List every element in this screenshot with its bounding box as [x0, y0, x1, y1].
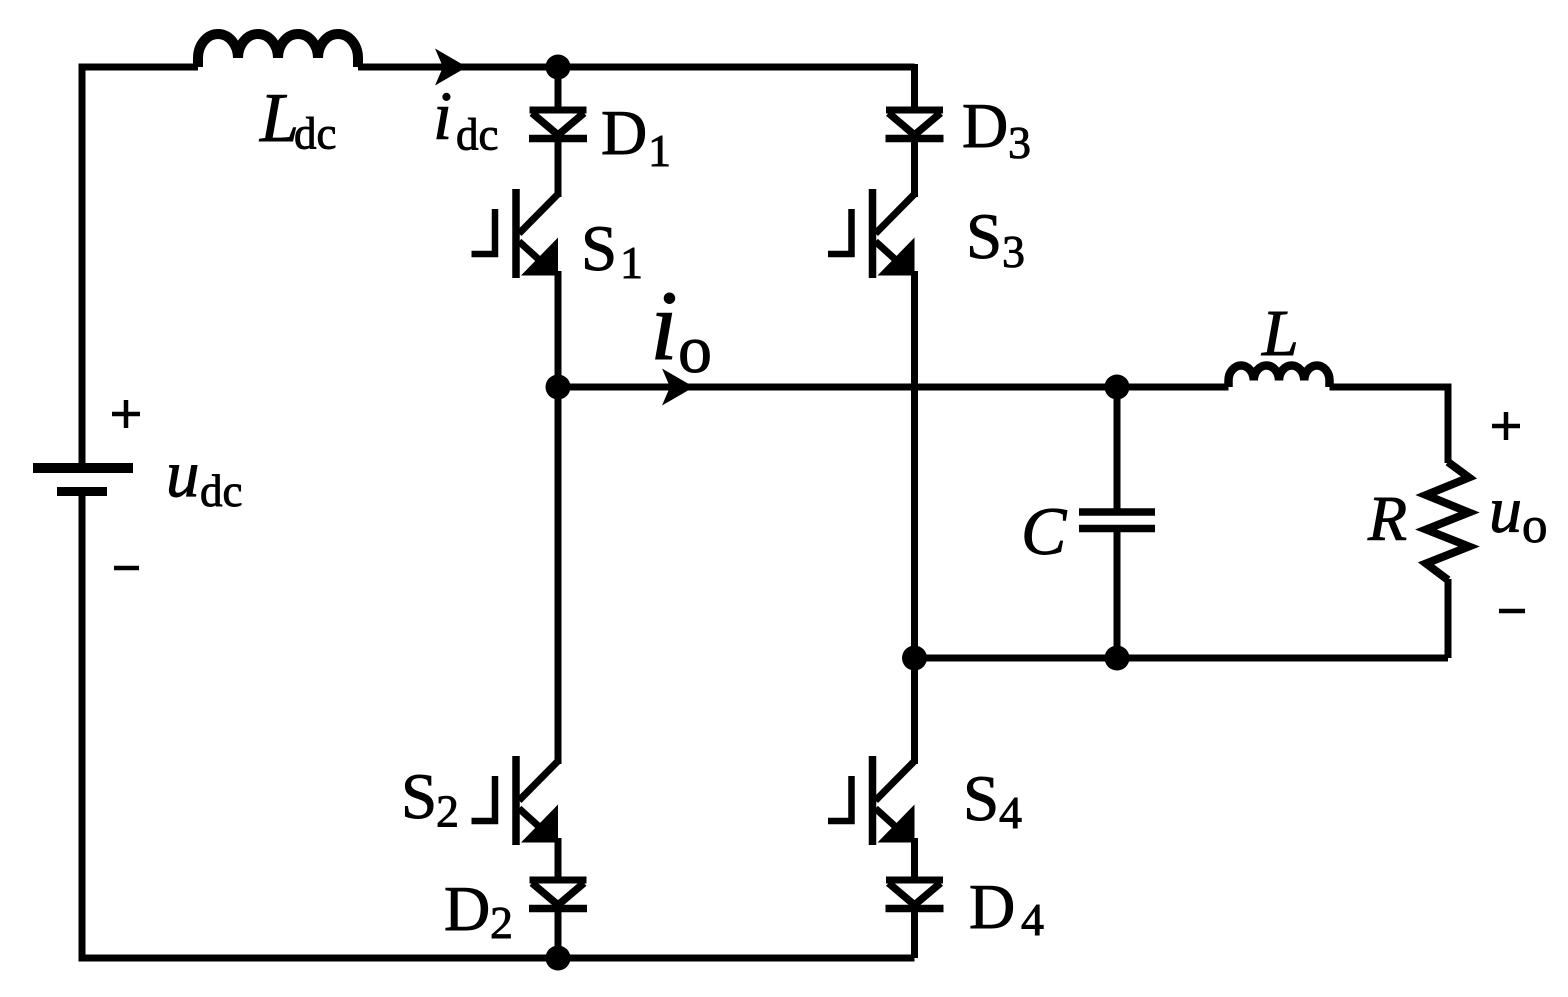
svg-text:1: 1: [648, 125, 671, 176]
label io: [650, 270, 712, 387]
label S2: [401, 761, 459, 837]
wire: left column bottom + bottom rail: [82, 492, 915, 959]
label S3: [966, 201, 1025, 277]
svg-text:1: 1: [620, 237, 643, 288]
svg-text:R: R: [1367, 483, 1407, 554]
wire: output bottom rail: [915, 655, 1449, 662]
svg-text:i: i: [433, 78, 452, 154]
wire: S1 to mid node: [555, 271, 562, 387]
svg-text:dc: dc: [456, 110, 498, 160]
label Ldc: [259, 80, 336, 159]
wire: D2 to bottom node: [555, 908, 562, 958]
label minus output: [1499, 609, 1525, 614]
wire: D3 to S3: [911, 138, 918, 197]
diode D3: [886, 110, 944, 139]
label minus battery: [114, 566, 139, 571]
svg-text:i: i: [650, 270, 678, 381]
svg-text:S: S: [963, 763, 999, 835]
wire: top rail from Ldc to right-leg corner: [358, 64, 915, 71]
node: right leg / output bottom rail junction: [902, 646, 927, 671]
battery udc: long positive plate: [33, 463, 133, 473]
svg-text:dc: dc: [294, 109, 336, 159]
svg-text:D: D: [444, 873, 490, 944]
svg-text:3: 3: [1008, 117, 1031, 168]
label idc: [433, 78, 498, 160]
inductor L: [1229, 365, 1330, 387]
wire: D1 to S1: [555, 138, 562, 197]
node: bottom rail / left leg junction: [546, 946, 571, 971]
battery udc: short negative plate: [57, 487, 107, 496]
wire: left leg mid node down to S2: [555, 387, 562, 764]
wire: capacitor top lead: [1114, 387, 1121, 509]
label D4: [969, 871, 1044, 945]
node: capacitor bottom junction: [1105, 646, 1130, 671]
svg-text:o: o: [1522, 498, 1548, 554]
transistor S1 (IGBT): [472, 189, 559, 278]
svg-text:2: 2: [490, 897, 513, 948]
svg-text:dc: dc: [200, 466, 242, 516]
transistor S4 (IGBT): [828, 756, 915, 845]
svg-text:L: L: [259, 80, 299, 157]
inductor Ldc: [198, 34, 358, 67]
label S4: [963, 763, 1022, 838]
wire: right leg node down to S4: [911, 658, 918, 764]
label D3: [962, 90, 1031, 168]
svg-text:4: 4: [1021, 894, 1044, 945]
label plus battery: [112, 400, 140, 428]
svg-text:D: D: [969, 871, 1015, 942]
svg-text:o: o: [678, 311, 712, 387]
wire: left leg from top node to D1: [555, 67, 562, 112]
capacitor C: [1079, 512, 1155, 529]
svg-text:4: 4: [999, 787, 1022, 838]
node: left leg mid output junction: [546, 375, 571, 400]
wire: capacitor bottom lead: [1114, 532, 1121, 658]
svg-text:2: 2: [436, 786, 459, 837]
wire: left column top + top-left corner: [82, 67, 198, 466]
svg-text:S: S: [966, 201, 1002, 273]
label D1: [601, 97, 671, 176]
transistor S2 (IGBT): [472, 756, 559, 845]
node: top rail / left leg junction: [546, 55, 571, 80]
arrow io: [662, 369, 694, 406]
label uo: [1489, 474, 1548, 555]
wire: L to top-right corner, down to resistor: [1330, 387, 1449, 463]
wire: resistor to bottom-right corner: [1445, 579, 1452, 658]
svg-text:D: D: [601, 97, 647, 168]
label plus output: [1492, 412, 1520, 440]
label D2: [444, 873, 513, 948]
diode D1: [529, 110, 587, 139]
svg-text:D: D: [962, 90, 1008, 161]
diode D2: [529, 880, 587, 909]
label udc: [166, 437, 242, 516]
svg-text:S: S: [401, 761, 437, 833]
svg-text:u: u: [1489, 474, 1522, 547]
svg-text:L: L: [1261, 297, 1299, 370]
label S1: [581, 213, 643, 288]
svg-text:u: u: [166, 437, 200, 511]
svg-text:3: 3: [1002, 226, 1025, 277]
wire: right leg top corner down to D3: [911, 64, 918, 112]
diode D4: [886, 880, 944, 909]
wire: S2 to D2: [555, 838, 562, 882]
transistor S3 (IGBT): [828, 189, 915, 278]
wire: D4 to bottom-right corner: [911, 908, 918, 958]
node: output top / capacitor junction: [1105, 375, 1130, 400]
wire: S3 down across output rail to lower node: [911, 271, 918, 658]
resistor R: [1426, 462, 1469, 580]
wire: S4 to D4: [911, 838, 918, 882]
svg-text:C: C: [1021, 493, 1067, 569]
wire: output rail from capacitor node to inductor L: [1117, 384, 1229, 391]
wire: output rail mid, node to capacitor node: [558, 384, 1117, 391]
svg-text:S: S: [581, 213, 617, 285]
arrow idc: [435, 49, 467, 86]
